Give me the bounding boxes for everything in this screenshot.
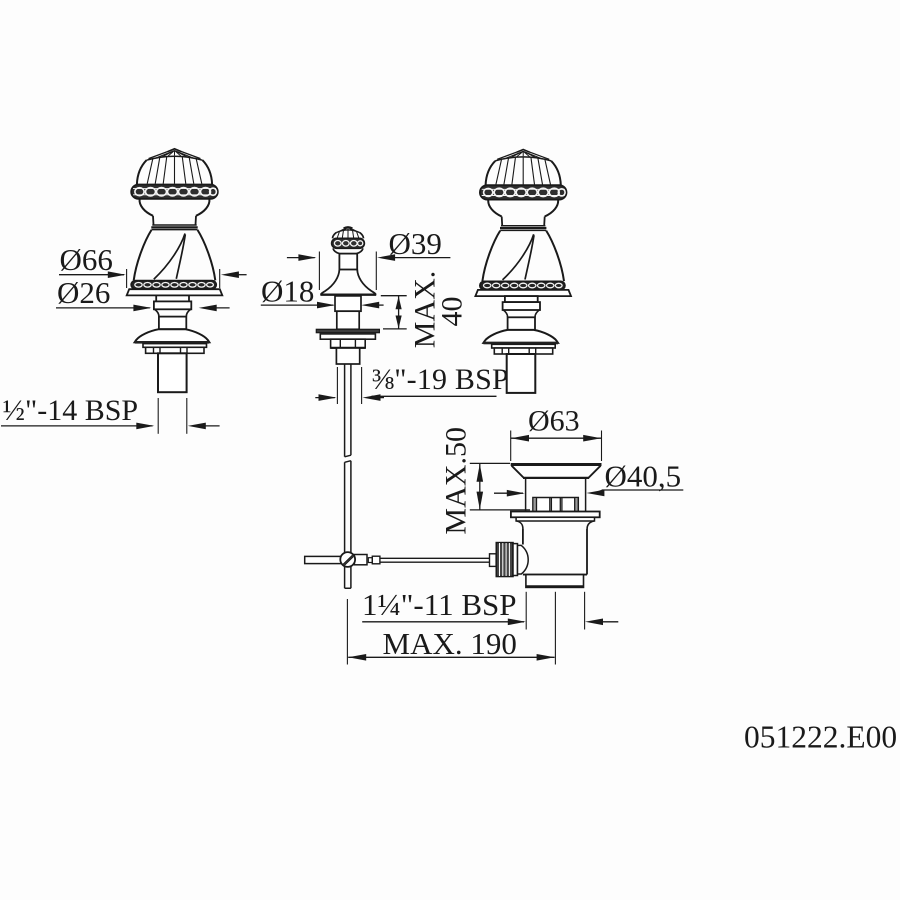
dim MAX.40 vertical	[381, 296, 407, 329]
rod upper segment	[345, 364, 351, 457]
right tap handle	[475, 149, 571, 393]
left tap handle	[127, 149, 223, 392]
nut shank	[336, 348, 359, 364]
rod end fitting	[368, 558, 372, 563]
svg-text:Ø26: Ø26	[57, 275, 110, 310]
svg-text:Ø40,5: Ø40,5	[605, 459, 682, 494]
svg-text:⅜"-19 BSP: ⅜"-19 BSP	[372, 363, 509, 396]
washer white	[320, 334, 375, 339]
washer dark	[316, 329, 379, 332]
drain assembly	[511, 463, 602, 587]
drain cylinder	[526, 479, 586, 512]
dim Ø66	[59, 269, 247, 288]
dim Ø39	[287, 252, 451, 291]
svg-text:Ø18: Ø18	[261, 274, 314, 309]
dim 1 1/4-11 BSP	[362, 592, 618, 630]
trumpet top rim	[511, 463, 602, 466]
stem	[335, 296, 361, 311]
dim Ø18	[261, 302, 384, 309]
plug grid	[533, 498, 578, 512]
horizontal pop-up linkage	[305, 543, 529, 577]
knob bulb	[333, 248, 363, 253]
knob tip	[344, 227, 353, 228]
nut	[331, 339, 366, 348]
tail piece	[526, 575, 584, 588]
knurled nut	[496, 543, 513, 577]
svg-text:MAX. 190: MAX. 190	[383, 626, 517, 661]
rod lower segment	[345, 461, 351, 589]
knurl ring	[513, 544, 518, 576]
trumpet sides	[512, 466, 601, 478]
flange	[511, 512, 600, 518]
svg-text:Ø63: Ø63	[528, 405, 580, 438]
svg-text:40: 40	[436, 297, 469, 327]
dim MAX.190	[347, 592, 555, 665]
dim 3/8-19 BSP	[315, 367, 496, 404]
trumpet skirt	[321, 270, 376, 295]
rod collar	[490, 554, 497, 567]
dim MAX.50 vertical	[470, 463, 530, 510]
dim Ø26	[56, 305, 230, 312]
svg-text:Ø39: Ø39	[389, 226, 442, 261]
knob fluted dome	[333, 233, 364, 239]
knob neck	[339, 254, 357, 270]
dim Ø40,5	[494, 490, 683, 497]
clamp screw	[340, 552, 355, 567]
long horizontal rod	[380, 558, 491, 562]
dim Ø63	[511, 431, 602, 462]
pop-up knob and rod assembly	[316, 227, 379, 589]
svg-text:MAX.50: MAX.50	[440, 427, 473, 535]
svg-text:1¼"-11 BSP: 1¼"-11 BSP	[362, 587, 517, 622]
svg-text:Ø66: Ø66	[60, 242, 113, 277]
mid section	[337, 311, 359, 329]
svg-text:½"-14 BSP: ½"-14 BSP	[3, 394, 139, 427]
body	[523, 529, 587, 575]
end cap	[518, 545, 529, 574]
left stub rod	[305, 556, 341, 563]
svg-text:051222.E00: 051222.E00	[744, 719, 897, 754]
concave neck	[517, 521, 594, 529]
clamp body	[354, 555, 367, 565]
dim 1/2-14 BSP	[1, 398, 220, 434]
flange band	[516, 517, 594, 521]
knob rope band	[332, 238, 365, 248]
